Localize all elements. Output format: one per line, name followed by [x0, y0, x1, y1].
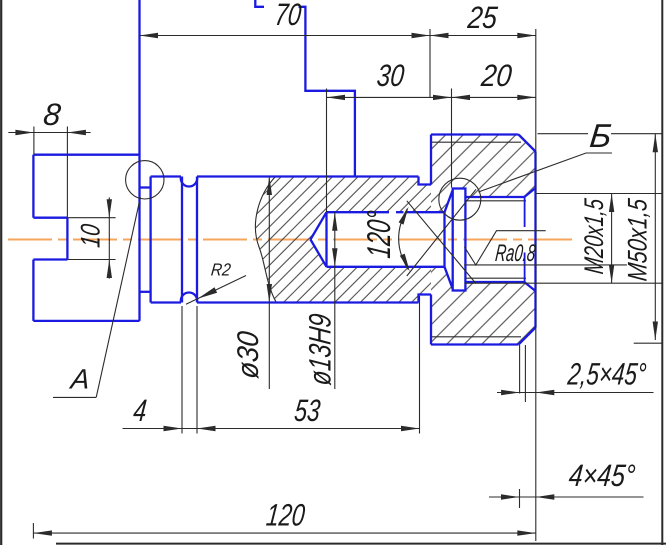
flange left face lower — [430, 295, 432, 345]
dim 4x45 line right — [536, 496, 644, 498]
relief groove top arc — [181, 177, 197, 187]
dim 70 line — [140, 35, 536, 37]
M20 thread minor top thin — [465, 200, 526, 202]
svg-text:30: 30 — [375, 58, 406, 93]
groove left transition line — [181, 177, 183, 303]
dim 4 ext right — [196, 306, 198, 434]
groove right transition line — [196, 177, 198, 303]
dim 2.5x45 line left — [497, 392, 536, 394]
svg-text:10: 10 — [75, 222, 106, 248]
thread relief groove — [453, 189, 466, 291]
detail circle A — [126, 161, 164, 199]
svg-text:20: 20 — [479, 58, 514, 93]
dim 4 line — [123, 428, 420, 430]
neck stub top line — [140, 186, 151, 188]
svg-text:ø13H9: ø13H9 — [303, 312, 338, 387]
crossed diagonal 1 — [407, 201, 476, 284]
dim M50 arrow top — [653, 134, 658, 153]
flange bottom edge — [431, 343, 519, 345]
cavity bottom cone upper — [445, 190, 453, 212]
dim 120deg arc — [399, 209, 409, 270]
R2 arrow — [198, 287, 217, 298]
dim 10 line — [108, 197, 110, 278]
dim 4x45 arrow right — [536, 494, 555, 499]
svg-text:4×45°: 4×45° — [567, 458, 637, 493]
head right face / shoulder line — [138, 0, 140, 321]
dim 2.5x45 ext a — [519, 345, 521, 394]
centerline axis — [8, 238, 573, 240]
flange bottom-right chamfer — [519, 328, 536, 345]
body step before flange bottom — [419, 295, 432, 303]
dim 30 line — [327, 96, 536, 98]
body bottom edge left of groove — [151, 301, 181, 303]
dim phi13H9 line — [334, 212, 336, 389]
slot top edge — [33, 217, 67, 219]
dim 4 arrow left — [164, 426, 183, 431]
svg-text:M20x1,5: M20x1,5 — [578, 196, 609, 275]
dim phi13H9 arrow top — [332, 212, 337, 231]
dim M20 arrow bottom — [609, 265, 614, 284]
dim 120 line — [33, 532, 535, 534]
dim M50 ext top seg1 — [538, 133, 589, 135]
dim phi13H9 arrow bottom — [332, 248, 337, 266]
svg-text:53: 53 — [293, 393, 323, 428]
dim 25 arrow left — [430, 33, 449, 38]
svg-text:120°: 120° — [361, 209, 398, 260]
flange right face — [534, 152, 536, 328]
dim 120deg arrow bottom — [400, 254, 410, 272]
roughness shelf line — [464, 264, 627, 266]
hole opening chamfer top — [524, 188, 535, 197]
hole cone lower side — [311, 240, 327, 267]
slot bottom edge — [33, 258, 67, 260]
slot bottom face — [66, 218, 68, 260]
dim 53 ext right — [419, 296, 421, 434]
M50 thread minor line top — [431, 141, 521, 143]
dim 70 arrow left — [140, 33, 159, 38]
dim M20 ext bottom — [465, 282, 664, 284]
M50 thread minor line bottom — [431, 336, 521, 338]
body top edge left of groove — [151, 175, 181, 177]
R2 leader — [186, 276, 246, 305]
hole bottom line — [327, 266, 445, 268]
dim 4 arrow right — [197, 426, 216, 431]
dim 8 arrow left — [15, 130, 34, 135]
dim 4x45 ext — [519, 489, 521, 508]
label A underline — [53, 396, 96, 398]
dim 30 ext line — [326, 89, 328, 213]
dim 25 arrow right — [517, 33, 536, 38]
dim phi30 line — [268, 177, 270, 390]
sheet frame bottom border — [56, 543, 666, 545]
dim 4 ext left — [181, 306, 183, 434]
head bottom edge — [33, 320, 139, 322]
bore chamfer edge circle bottom — [524, 253, 526, 284]
dim M50 line — [654, 134, 656, 340]
dim 10 ext top — [67, 217, 115, 219]
crossed diagonal 2 — [407, 189, 476, 276]
partial section wavy break line — [255, 177, 276, 303]
leader to label B — [478, 153, 612, 192]
cavity bottom cone lower — [445, 267, 453, 289]
dim 2.5x45 arrow left — [501, 390, 519, 395]
dim 20 ext line — [451, 89, 453, 188]
dim phi30 arrow bottom — [267, 284, 272, 303]
svg-text:70: 70 — [273, 0, 303, 32]
roughness symbol — [465, 231, 546, 265]
dim 2.5x45 arrow right — [536, 390, 555, 395]
hole opening chamfer bottom — [524, 282, 535, 291]
M20 thread major top — [465, 196, 524, 198]
dim 8 ext left — [33, 127, 35, 155]
head left face upper — [32, 155, 34, 218]
dim 53 arrow right — [401, 426, 420, 431]
dim 120 arrow right — [517, 530, 536, 535]
svg-text:ø30: ø30 — [232, 329, 265, 380]
dim 8 ext right — [66, 127, 68, 218]
M20 thread minor bottom thin — [465, 277, 526, 279]
svg-text:Ra0.8: Ra0.8 — [494, 240, 537, 267]
hole cone upper side — [311, 212, 327, 239]
body step before flange top — [419, 177, 432, 185]
body bottom edge — [197, 301, 419, 303]
dim phi30 arrow top — [267, 177, 272, 196]
leader to label A — [96, 197, 140, 397]
relief groove bottom arc — [181, 292, 197, 302]
head top edge — [33, 154, 139, 156]
svg-text:Б: Б — [588, 118, 613, 155]
dim 10 ext bottom — [67, 259, 115, 261]
dim M20 ext top — [536, 193, 664, 195]
svg-text:25: 25 — [465, 0, 499, 35]
upper view outline stub left — [255, 0, 264, 7]
dim 2.5x45 line right — [536, 392, 654, 394]
svg-text:R2: R2 — [210, 260, 232, 280]
dim M50 ext top seg2 — [611, 133, 662, 135]
svg-text:M50x1,5: M50x1,5 — [622, 196, 653, 282]
dim M50 arrow bottom — [653, 322, 658, 341]
svg-text:2,5×45°: 2,5×45° — [566, 357, 648, 392]
dim M20 arrow top — [609, 194, 614, 213]
sheet frame right border — [661, 0, 663, 545]
flange top-right chamfer — [519, 135, 536, 152]
hole top line seg2 — [407, 211, 445, 213]
dim 20 arrow right — [517, 95, 536, 100]
dim 120deg arrow top — [399, 207, 409, 225]
section hatching flange — [431, 135, 536, 345]
neck stub bottom line — [140, 291, 151, 293]
dim 4x45 arrow left — [501, 494, 520, 499]
right ext line — [535, 29, 537, 541]
head left face lower — [32, 260, 34, 321]
flange left face upper — [430, 135, 432, 185]
flange top edge — [431, 133, 519, 135]
dim 120 ext left — [32, 523, 34, 539]
dim 25 ext line — [429, 29, 431, 98]
hole top line dash — [396, 211, 404, 213]
cavity bottom face — [443, 212, 445, 267]
dim 10 arrow bottom — [107, 260, 112, 279]
M20 thread major bottom — [465, 281, 524, 283]
dim 120 arrow left — [33, 530, 52, 535]
hole top line seg1 — [327, 211, 390, 213]
svg-text:120: 120 — [265, 498, 307, 533]
sheet frame left border — [0, 0, 2, 545]
dim 8 line — [8, 132, 90, 134]
upper view outline step — [299, 7, 355, 177]
hole cone base line — [325, 212, 327, 267]
dim 4x45 line left — [489, 496, 536, 498]
dim 30 arrow right — [433, 95, 452, 100]
bore chamfer edge circle top — [524, 197, 526, 227]
body left end face — [149, 177, 151, 303]
body top edge — [197, 175, 419, 177]
dim 30 arrow left — [327, 95, 346, 100]
dim M50 ext bottom — [634, 342, 663, 344]
dim 2.5x45 ext b — [524, 345, 526, 402]
dim 70 arrow right — [412, 33, 431, 38]
dim 10 arrow top — [107, 199, 112, 218]
dim M20 line — [611, 194, 613, 284]
dim 8 arrow right — [67, 130, 86, 135]
dim 20 arrow left — [452, 95, 471, 100]
detail circle B — [439, 178, 481, 220]
